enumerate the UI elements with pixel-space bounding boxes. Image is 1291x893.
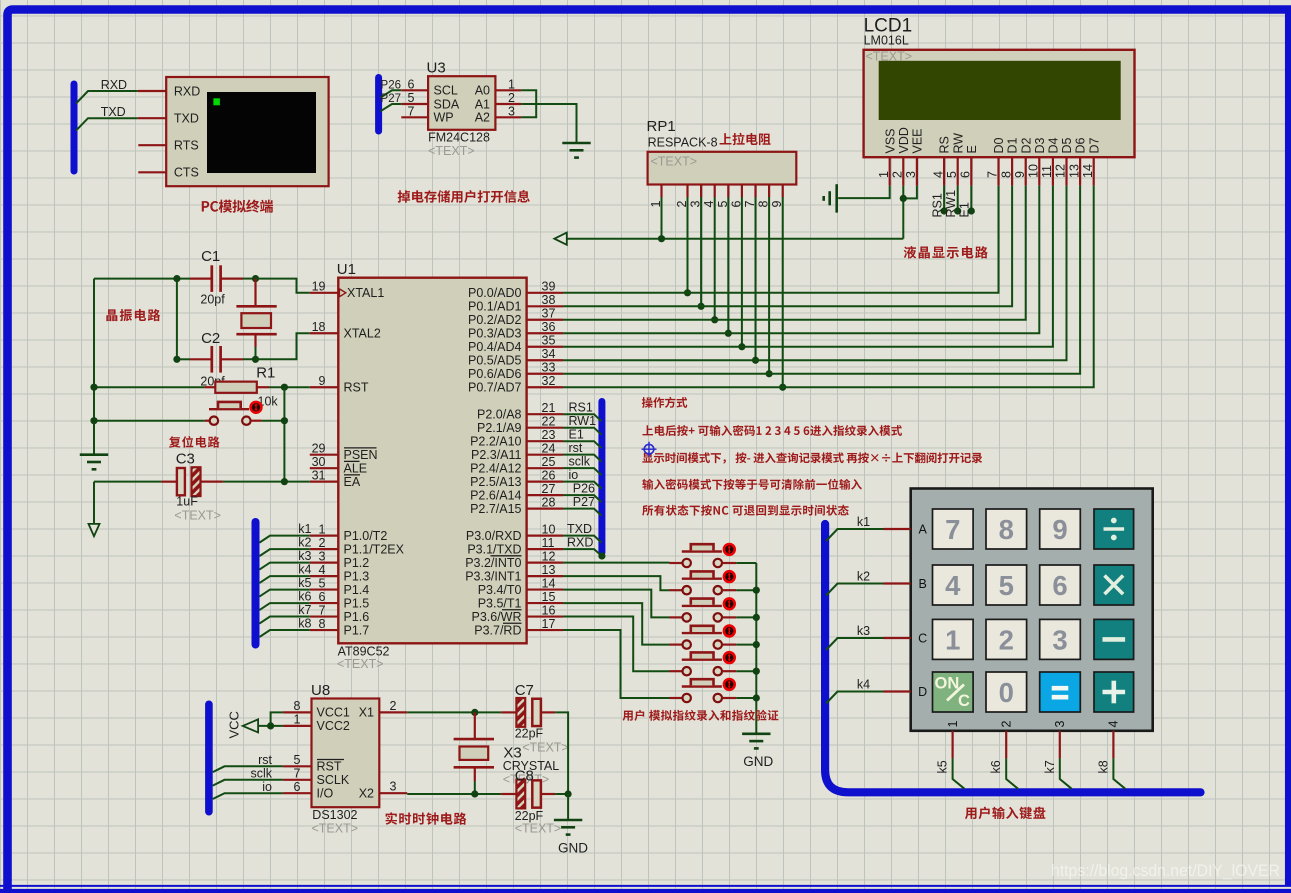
svg-text:VCC2: VCC2: [317, 719, 350, 733]
wire C8 to right rail: [555, 793, 568, 795]
svg-text:C: C: [918, 631, 927, 645]
U1 pin 34 stub: [527, 359, 563, 361]
svg-text:P3.7/RD: P3.7/RD: [474, 623, 521, 637]
svg-text:SCL: SCL: [434, 84, 458, 98]
wire P3.7 to button6: [563, 630, 670, 698]
U1 pin 22 stub: [527, 427, 563, 429]
svg-text:1: 1: [877, 171, 891, 178]
svg-text:17: 17: [542, 617, 556, 631]
key 1: [933, 619, 974, 659]
wire C1 top rail: [94, 278, 190, 280]
LCD1 pin 7 stub: [997, 157, 999, 185]
svg-text:P2.5/A13: P2.5/A13: [470, 475, 521, 489]
svg-text:<TEXT>: <TEXT>: [866, 50, 913, 64]
junction R1 right: [281, 384, 288, 391]
junction RP1 pin7: [752, 357, 759, 364]
key =: [1040, 672, 1081, 712]
svg-text:XTAL2: XTAL2: [344, 327, 381, 341]
svg-text:D7: D7: [1087, 137, 1101, 153]
svg-text:P3.1/TXD: P3.1/TXD: [467, 542, 521, 556]
svg-text:rst: rst: [569, 441, 583, 455]
U1 pin 3 stub (P1.2): [310, 561, 339, 563]
capacitor C1: [190, 278, 212, 280]
wire LCD VDD down to power rail: [902, 186, 904, 239]
svg-text:P1.3: P1.3: [344, 569, 370, 583]
svg-text:GND: GND: [558, 840, 588, 855]
wire k6 to bus: [1006, 758, 1018, 788]
svg-text:P0.4/AD4: P0.4/AD4: [468, 340, 522, 354]
note line4: [642, 479, 862, 490]
svg-text:C8: C8: [515, 767, 534, 784]
wire P2.3 to bus: [563, 455, 602, 462]
wire P3.0 TXD to bus: [563, 536, 602, 543]
svg-text:P3.6/WR: P3.6/WR: [471, 610, 521, 624]
wire U3 A1 to ground: [521, 104, 576, 142]
svg-text:2: 2: [508, 91, 515, 105]
wire RST row left: [94, 386, 204, 388]
wire R1/button vertical: [283, 387, 285, 481]
wire P3.4 to button3: [563, 590, 670, 618]
svg-text:C: C: [958, 692, 970, 710]
svg-text:X2: X2: [359, 787, 374, 801]
wire LCD D5 to P0.5: [563, 186, 1067, 361]
svg-text:VCC1: VCC1: [317, 706, 350, 720]
wire X1 row: [407, 711, 501, 713]
ground (RTC): [554, 819, 582, 822]
key minus: [1094, 619, 1134, 659]
wire P2.0 to bus: [563, 414, 602, 421]
junction button right: [281, 417, 288, 424]
keypad pin 1 stub: [951, 731, 953, 759]
wire LCD VEE to VDD: [903, 186, 917, 199]
U1 pin 15 stub: [527, 602, 563, 604]
power terminal arrow: [554, 233, 566, 245]
junction left rail RST: [90, 384, 97, 391]
svg-text:io: io: [262, 780, 272, 794]
label PC terminal: [202, 200, 273, 213]
wire C7 to right rail: [555, 712, 568, 794]
svg-text:RST: RST: [317, 760, 342, 774]
svg-text:6: 6: [319, 590, 326, 604]
svg-text:38: 38: [542, 293, 556, 307]
power-down arrow terminal: [89, 524, 100, 536]
svg-text:P1.2: P1.2: [344, 556, 370, 570]
svg-text:k2: k2: [298, 536, 311, 550]
svg-text:P0.5/AD5: P0.5/AD5: [468, 354, 522, 368]
U1 pin 28 stub: [527, 508, 563, 510]
wire RP1 pin3 to P0.1 line: [700, 197, 702, 306]
svg-text:sclk: sclk: [250, 767, 272, 781]
wire k2 to P1.1: [259, 549, 309, 556]
svg-text:3: 3: [319, 549, 326, 563]
junction left rail button: [90, 417, 97, 424]
svg-text:20pf: 20pf: [200, 293, 225, 307]
svg-text:RS: RS: [938, 136, 952, 153]
wire k8 to P1.7: [259, 630, 309, 637]
svg-text:DS1302: DS1302: [312, 808, 357, 822]
svg-text:RW1: RW1: [569, 414, 597, 428]
svg-text:22pF: 22pF: [515, 727, 544, 741]
wire k5 to bus: [953, 758, 965, 788]
svg-text:P1.4: P1.4: [344, 583, 370, 597]
U1 pin 13 stub: [527, 575, 563, 577]
svg-text:k5: k5: [298, 576, 311, 590]
svg-text:CTS: CTS: [174, 166, 199, 180]
RP1 pin 9 stub: [782, 185, 784, 198]
wire io to bus: [213, 793, 283, 799]
U1 pin 10 stub: [527, 535, 563, 537]
push button (reset): [205, 420, 210, 422]
U1 pin 9 stub: [310, 386, 339, 388]
svg-text:5: 5: [319, 576, 326, 590]
wire button1 to common: [736, 562, 756, 564]
key 4: [933, 565, 974, 605]
junction RP1 pin1 on power rail: [658, 235, 665, 242]
svg-text:P1.1/T2EX: P1.1/T2EX: [344, 542, 405, 556]
wire RP1 pin4 to P0.2 line: [714, 197, 716, 320]
junction C1 left: [173, 275, 180, 282]
wire LCD D4 to P0.4: [563, 186, 1053, 347]
net terminal dot RS1: [941, 207, 948, 214]
keypad pin 2 stub: [1005, 731, 1007, 759]
svg-text:3: 3: [508, 104, 515, 118]
C8 lead right: [541, 793, 555, 795]
wire k1 to keypad: [826, 529, 884, 541]
svg-text:D4: D4: [1047, 137, 1061, 153]
svg-text:TXD: TXD: [567, 522, 592, 536]
U3 pin 2 stub: [495, 103, 521, 105]
svg-text:3: 3: [390, 780, 397, 794]
junction RP1 pin5: [725, 330, 732, 337]
keypad pin A stub: [884, 528, 911, 530]
svg-text:15: 15: [542, 590, 556, 604]
svg-text:2: 2: [999, 624, 1014, 655]
svg-text:6: 6: [408, 77, 415, 91]
svg-text:k1: k1: [298, 522, 311, 536]
svg-text:PSEN: PSEN: [344, 448, 378, 462]
wire X2 row: [407, 793, 501, 795]
wire VCC1 loop: [271, 712, 284, 726]
note line1: [642, 397, 687, 408]
wire C3 left down: [93, 482, 95, 524]
svg-text:VCC: VCC: [227, 711, 242, 738]
key 7: [933, 509, 974, 549]
wire C1C2 left vertical: [176, 279, 178, 360]
U8 pin 7 stub: [283, 779, 311, 781]
svg-text:16: 16: [542, 603, 556, 617]
keypad pin 4 stub: [1112, 731, 1114, 759]
keypad body: [911, 489, 1153, 731]
RP1 pin 5 stub: [727, 185, 729, 198]
junction RP1 pin6: [738, 343, 745, 350]
push button (fingerprint 4): [670, 643, 683, 645]
svg-text:34: 34: [542, 347, 556, 361]
junction button common: [753, 587, 760, 594]
svg-text:EA: EA: [344, 475, 361, 489]
U1 pin 32 stub: [527, 386, 563, 388]
svg-text:12: 12: [1054, 164, 1068, 178]
wire P3.6 to button5: [563, 617, 670, 672]
svg-text:P0.3/AD3: P0.3/AD3: [468, 327, 522, 341]
junction C3/EA: [281, 478, 288, 485]
key 5: [986, 565, 1027, 605]
svg-text:https://blog.csdn.net/DIY_lOVE: https://blog.csdn.net/DIY_lOVER: [1051, 862, 1280, 880]
svg-text:P3.5/T1: P3.5/T1: [478, 596, 522, 610]
svg-text:k8: k8: [1096, 760, 1110, 773]
ground (reset): [80, 453, 108, 456]
svg-text:D: D: [918, 685, 927, 699]
wire TXD: [76, 118, 138, 130]
U1 pin 26 stub: [527, 481, 563, 483]
LCD1 pin 14 stub: [1093, 157, 1095, 185]
svg-text:P27: P27: [381, 93, 401, 105]
U3 pin 7 stub: [401, 116, 428, 118]
key 6: [1040, 565, 1081, 605]
RP1 pin 4 stub: [714, 185, 716, 198]
svg-text:P1.6: P1.6: [344, 610, 370, 624]
svg-text:k5: k5: [936, 760, 950, 773]
wire RP1 pin1 down: [661, 197, 663, 239]
U8 pin 6 stub: [283, 792, 311, 794]
push button (fingerprint 2): [670, 589, 683, 591]
C8 lead left: [501, 793, 516, 795]
wire P3.2 to button1: [563, 562, 670, 564]
svg-text:29: 29: [312, 441, 326, 455]
U3 pin 1 stub: [495, 89, 521, 91]
svg-text:D6: D6: [1074, 137, 1088, 153]
vcc terminal arrow: [243, 719, 258, 732]
svg-text:13: 13: [542, 563, 556, 577]
svg-text:7: 7: [986, 171, 1000, 178]
wire P2.2 to bus: [563, 441, 602, 448]
junction C1 right: [252, 275, 259, 282]
junction C8 rail: [565, 790, 572, 797]
virtual terminal P1 body: [166, 77, 328, 186]
wire k3 to keypad: [826, 638, 884, 650]
crystal X3: [474, 712, 476, 738]
key multiply: [1094, 565, 1134, 605]
svg-text:U1: U1: [337, 261, 356, 278]
U1 pin 35 stub: [527, 346, 563, 348]
svg-text:4: 4: [945, 570, 961, 601]
power rail wire: [567, 238, 903, 240]
svg-text:8: 8: [294, 699, 301, 713]
svg-text:D1: D1: [1006, 137, 1020, 153]
wire button3 to common: [736, 616, 756, 618]
wire button4 to common: [736, 644, 756, 646]
U1 pin 19 stub: [310, 292, 339, 294]
U1 pin 1 stub (P1.0): [310, 535, 339, 537]
wire RP1 pin5 to P0.3 line: [727, 197, 729, 333]
svg-text:7: 7: [408, 104, 415, 118]
key ON/C: [933, 672, 974, 712]
svg-text:k3: k3: [857, 624, 870, 638]
wire X3 to X2 row: [474, 781, 476, 794]
svg-text:RW: RW: [951, 133, 965, 154]
svg-text:P27: P27: [573, 495, 595, 509]
LCD1 pin 1 stub: [889, 157, 891, 185]
svg-text:E1: E1: [569, 428, 584, 442]
note line3: [642, 452, 982, 463]
svg-text:RTS: RTS: [174, 139, 199, 153]
svg-text:X1: X1: [359, 706, 374, 720]
U1 pin 25 stub: [527, 467, 563, 469]
svg-text:10: 10: [1027, 164, 1041, 178]
svg-text:P2.2/A10: P2.2/A10: [470, 434, 521, 448]
svg-text:5: 5: [408, 91, 415, 105]
svg-text:<TEXT>: <TEXT>: [428, 144, 475, 158]
svg-text:4: 4: [931, 171, 945, 178]
svg-text:E: E: [965, 145, 979, 153]
U1 pin 27 stub: [527, 494, 563, 496]
svg-text:k7: k7: [298, 603, 311, 617]
wire P2.6 to bus: [563, 495, 602, 502]
svg-text:ON: ON: [935, 675, 960, 693]
svg-text:LM016L: LM016L: [864, 33, 909, 47]
svg-text:9: 9: [319, 374, 326, 388]
wire button2 to common: [736, 589, 756, 591]
svg-text:k3: k3: [298, 549, 311, 563]
svg-text:k8: k8: [298, 617, 311, 631]
svg-text:3: 3: [1052, 624, 1067, 655]
capacitor C7: [516, 698, 525, 727]
svg-text:9: 9: [1052, 514, 1067, 545]
wire LCD D3 to P0.3: [563, 186, 1039, 334]
svg-text:A1: A1: [475, 97, 490, 111]
svg-text:C1: C1: [201, 248, 220, 265]
svg-text:22: 22: [542, 415, 556, 429]
svg-text:6: 6: [959, 171, 973, 178]
bus bar (terminal): [71, 84, 78, 171]
svg-text:P26: P26: [573, 482, 595, 496]
svg-text:P0.0/AD0: P0.0/AD0: [468, 286, 522, 300]
U1 pin 16 stub: [527, 615, 563, 617]
eeprom U3 body: [428, 76, 495, 130]
svg-text:RS1: RS1: [569, 401, 593, 415]
svg-text:1: 1: [945, 624, 960, 655]
U1 pin 33 stub: [527, 373, 563, 375]
junction VCC: [267, 722, 274, 729]
svg-text:sclk: sclk: [569, 455, 591, 469]
label LCD circuit: [904, 246, 988, 258]
U1 pin 24 stub: [527, 454, 563, 456]
svg-text:P2.4/A12: P2.4/A12: [470, 461, 521, 475]
svg-text:P1.5: P1.5: [344, 596, 370, 610]
svg-text:21: 21: [542, 401, 556, 415]
svg-text:P1.7: P1.7: [344, 623, 370, 637]
svg-text:5: 5: [999, 570, 1014, 601]
svg-text:2: 2: [891, 171, 905, 178]
net terminal dot E1: [968, 207, 975, 214]
svg-text:C3: C3: [176, 450, 195, 467]
svg-text:P26: P26: [381, 79, 401, 91]
wire P2.5 to bus: [563, 482, 602, 489]
svg-text:A2: A2: [475, 111, 490, 125]
U1 pin 14 stub: [527, 588, 563, 590]
push button (fingerprint 6): [670, 697, 683, 699]
note line5: [642, 505, 849, 516]
wire k4 to keypad: [826, 692, 884, 704]
wire LCD E1 stub down: [970, 186, 972, 211]
ground (buttons): [742, 732, 770, 735]
U1 pin 17 stub: [527, 629, 563, 631]
svg-text:RW1: RW1: [944, 190, 958, 218]
capacitor C8: [516, 780, 525, 809]
resistor R1: [204, 386, 215, 388]
terminal P1 pin TXD stub: [138, 117, 166, 119]
svg-text:k2: k2: [857, 570, 870, 584]
svg-text:k4: k4: [857, 678, 870, 692]
U1 pin 30 stub: [310, 467, 339, 469]
wire C2 row left: [177, 358, 190, 360]
U1 pin 37 stub: [527, 319, 563, 321]
svg-text:6: 6: [1052, 570, 1067, 601]
cursor marker: [644, 444, 654, 454]
svg-text:1: 1: [294, 713, 301, 727]
U8 pin 8 stub: [283, 711, 311, 713]
wire k5 to P1.4: [259, 590, 309, 597]
svg-text:7: 7: [294, 767, 301, 781]
svg-text:P1.0/T2: P1.0/T2: [344, 529, 388, 543]
ground (LCD VSS): [835, 184, 838, 212]
svg-text:14: 14: [1081, 164, 1095, 178]
svg-text:6: 6: [294, 780, 301, 794]
LCD1 pin 2 stub: [902, 157, 904, 185]
svg-text:k6: k6: [298, 590, 311, 604]
svg-text:B: B: [919, 577, 927, 591]
svg-text:10: 10: [542, 522, 556, 536]
wire RP1 pin7 to P0.5 line: [755, 197, 757, 360]
svg-text:8: 8: [319, 617, 326, 631]
svg-text:io: io: [569, 468, 579, 482]
label pull-up resistor: [720, 133, 771, 145]
junction RP1 pin4: [711, 316, 718, 323]
svg-text:P0.2/AD2: P0.2/AD2: [468, 313, 522, 327]
svg-text:TXD: TXD: [101, 105, 126, 119]
junction RP1 pin9: [779, 384, 786, 391]
wire XTAL1 lead: [256, 279, 310, 293]
U1 pin 2 stub (P1.1): [310, 548, 339, 550]
svg-text:24: 24: [542, 441, 556, 455]
LCD1 pin 6 stub: [970, 157, 972, 185]
svg-text:U3: U3: [427, 60, 446, 77]
svg-text:32: 32: [542, 374, 556, 388]
lcd LCD1 body: [864, 50, 1135, 157]
svg-text:<TEXT>: <TEXT>: [312, 821, 359, 835]
LCD1 pin 12 stub: [1065, 157, 1067, 185]
svg-text:<TEXT>: <TEXT>: [651, 154, 698, 168]
svg-text:1: 1: [508, 77, 515, 91]
svg-text:RP1: RP1: [647, 118, 676, 135]
RP1 pin 1 stub: [660, 185, 662, 198]
svg-text:P0.6/AD6: P0.6/AD6: [468, 367, 522, 381]
LCD1 pin 5 stub: [957, 157, 959, 185]
svg-text:36: 36: [542, 320, 556, 334]
key 8: [986, 509, 1027, 549]
LCD1 pin 10 stub: [1038, 157, 1040, 185]
label fingerprint buttons: [623, 710, 779, 721]
wire P3.5 to button4: [563, 603, 670, 645]
terminal P1 pin CTS stub: [138, 171, 166, 173]
svg-text:1: 1: [319, 522, 326, 536]
svg-text:FM24C128: FM24C128: [428, 131, 490, 145]
note line2: [642, 425, 901, 436]
U1 pin 8 stub (P1.7): [310, 629, 339, 631]
svg-text:rst: rst: [258, 753, 272, 767]
key plus: [1094, 672, 1134, 712]
svg-text:5: 5: [945, 171, 959, 178]
RP1 pin 6 stub: [741, 185, 743, 198]
